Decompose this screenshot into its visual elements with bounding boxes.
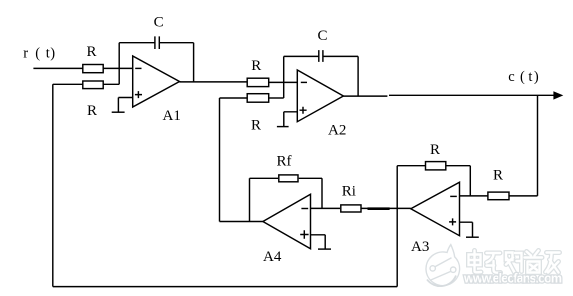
capacitor C1 left wire [119, 42, 154, 44]
watermark logo (elecfans) [426, 245, 460, 287]
capacitor C1 right wire to A1 output [160, 43, 194, 82]
wire R2 left to feedback loop [53, 83, 83, 85]
wire Rf right down to A4 inverting input [299, 178, 322, 208]
svg-text:R: R [87, 44, 97, 60]
wire A1 output to A2 input resistors [180, 81, 248, 83]
op-amp A1 [133, 56, 180, 107]
resistor Ri (A4 input) [341, 205, 361, 212]
svg-text:R: R [493, 167, 503, 183]
ground (A4) [318, 248, 331, 250]
capacitor C2 right wire to A2 output [323, 56, 358, 96]
svg-text:C: C [318, 28, 328, 44]
A1 plus sign [135, 91, 142, 98]
wire R1 to A1 inverting input [103, 67, 133, 69]
svg-text:c(t): c(t) [508, 69, 539, 85]
svg-text:R: R [430, 142, 440, 158]
svg-text:r(t): r(t) [23, 46, 55, 62]
svg-text:A4: A4 [263, 249, 282, 265]
op-amp A2 [297, 70, 343, 122]
A4 inverting input dash [301, 208, 308, 210]
svg-text:R: R [87, 103, 97, 119]
svg-text:A2: A2 [328, 122, 346, 138]
watermark text 电子发烧友 (approximated brush strokes, embossed) [469, 251, 560, 273]
svg-text:Rf: Rf [277, 153, 292, 169]
wire R4 right to junction [269, 97, 284, 99]
svg-text:R: R [251, 117, 261, 133]
svg-text:Ri: Ri [342, 183, 356, 199]
wire input r(t) [33, 67, 82, 69]
svg-text:www.elecfans.com: www.elecfans.com [463, 272, 562, 286]
ground (A1) [112, 111, 125, 113]
wire bottom feedback [53, 286, 397, 288]
wire R4 left [220, 97, 248, 99]
wire A3 output to Ri [361, 207, 411, 209]
wire R2 right to junction [103, 83, 119, 85]
wire Ri to A4 inverting input [311, 207, 341, 209]
resistor R6 (A3 input R from c(t)) [488, 192, 509, 200]
A3 plus sign [449, 218, 456, 225]
resistor R1 (A1 upper input R) [83, 65, 103, 73]
svg-text:R: R [251, 58, 261, 74]
A4 plus sign [300, 230, 308, 239]
wire A3 output bold segment [368, 207, 390, 210]
wire R5 left to A3 output node [397, 165, 425, 167]
A2 inverting input dash [301, 81, 307, 83]
ground (A3) [466, 236, 479, 238]
node A1 summing junction vertical [118, 43, 120, 85]
A1 inverting input dash [135, 67, 141, 69]
svg-text:C: C [154, 15, 164, 31]
resistor R5 (A3 feedback R) [426, 162, 446, 170]
svg-text:A3: A3 [411, 239, 429, 255]
wire left loop vertical (A3 output feedback down-left) [52, 84, 54, 286]
wire R6 to A3 inverting input [460, 195, 488, 197]
resistor R3 (A2 upper input R) [247, 78, 269, 86]
ground (A2) [277, 126, 289, 128]
op-amp A4 (points left) [263, 194, 311, 248]
resistor R4 (A2 lower input R) [247, 94, 269, 103]
wire vertical from R4 down to A4 output [219, 98, 221, 222]
wire A4 non-inverting to ground [311, 235, 326, 249]
resistor Rf (A4 feedback) [279, 175, 298, 182]
resistor R2 (A1 lower input R) [83, 81, 103, 89]
capacitor C2 left wire [284, 55, 319, 57]
wire A1 non-inverting to ground [118, 98, 132, 112]
A3 inverting input dash [450, 195, 457, 197]
capacitor C2 (A2 feedback) [319, 50, 323, 62]
wire Rf left down to A4 output [250, 178, 279, 221]
wire A2 non-inverting to ground [284, 112, 298, 127]
wire R5 right down to A3 inverting input [446, 166, 471, 196]
wire R3 to A2 inverting input [269, 81, 298, 83]
wire A2 output toward c(t) [343, 94, 553, 97]
op-amp A3 (points left) [411, 182, 460, 236]
capacitor C1 (A1 feedback) [155, 36, 159, 49]
node A2 summing junction vertical [283, 56, 285, 98]
A2 plus sign [300, 107, 307, 114]
wire A4 output [220, 221, 263, 223]
wire A3 non-inverting to ground [460, 222, 473, 237]
svg-text:A1: A1 [163, 108, 181, 124]
wire right loop vertical (A3 output node down to bottom) [396, 166, 398, 287]
node c(t) output arrow [553, 91, 563, 99]
wire c(t) feedback vertical down to A3 input R [509, 95, 538, 196]
